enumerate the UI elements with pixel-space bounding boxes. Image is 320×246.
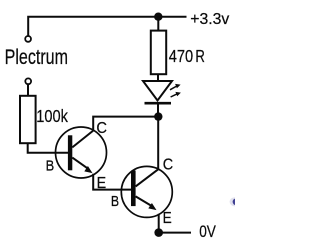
svg-text:B: B <box>46 158 55 175</box>
wire junction to Q2 collector <box>157 117 159 170</box>
svg-text:Plectrum: Plectrum <box>5 46 68 69</box>
LED light arrow lower <box>171 92 181 97</box>
plectrum terminal bottom <box>25 78 31 84</box>
wire plectrum terminal to 100k resistor <box>27 85 29 96</box>
wire +3.3v top rail <box>28 17 186 36</box>
wire Q1 emitter to Q2 base <box>93 174 131 190</box>
LED D1 cathode bar <box>145 102 172 105</box>
wire Q1 collector to LED junction <box>93 117 158 131</box>
junction dot LED cathode / Q1 collector / Q2 collector <box>154 112 162 120</box>
wire Q2 emitter to 0V junction <box>158 214 160 233</box>
wire LED cathode to junction <box>157 103 159 116</box>
svg-text:0V: 0V <box>199 222 216 241</box>
svg-text:+3.3v: +3.3v <box>190 11 229 28</box>
svg-text:B: B <box>111 194 119 210</box>
resistor 470R <box>151 31 166 75</box>
svg-text:100k: 100k <box>36 106 68 126</box>
svg-text:C: C <box>96 120 107 137</box>
transistor Q2 <box>121 166 172 217</box>
wire 470R resistor to LED anode <box>157 74 159 81</box>
plectrum terminal top <box>25 36 31 42</box>
svg-text:E: E <box>163 210 172 227</box>
wire 100k resistor to Q1 base <box>28 143 68 153</box>
svg-text:C: C <box>163 156 173 173</box>
LED D1 triangle <box>143 81 172 101</box>
LED light arrow upper <box>170 84 181 90</box>
resistor 100k <box>20 96 36 143</box>
transistor Q1 <box>56 127 107 178</box>
junction dot 0V <box>154 228 163 237</box>
artifact blue blob right edge <box>230 197 240 206</box>
wire 0V rail <box>159 232 191 234</box>
svg-text:R: R <box>195 46 205 66</box>
svg-text:470: 470 <box>169 46 194 66</box>
wire +3.3v junction to 470R resistor <box>157 17 159 31</box>
junction dot at +3.3v rail <box>154 13 162 21</box>
